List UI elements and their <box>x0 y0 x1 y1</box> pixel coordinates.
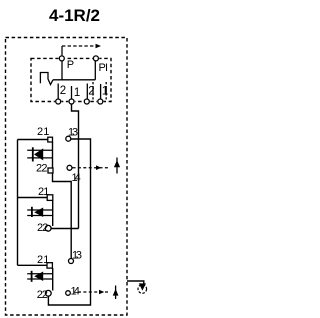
svg-text:2: 2 <box>88 86 94 98</box>
svg-text:4-1R/2: 4-1R/2 <box>49 6 100 25</box>
svg-text:P: P <box>67 59 74 71</box>
svg-text:2: 2 <box>37 126 43 138</box>
svg-text:2: 2 <box>37 254 43 266</box>
svg-text:3: 3 <box>72 127 78 139</box>
svg-text:2: 2 <box>41 163 47 175</box>
svg-text:4: 4 <box>75 172 81 184</box>
svg-text:2: 2 <box>42 289 48 301</box>
svg-text:1: 1 <box>43 254 49 266</box>
svg-text:1: 1 <box>43 126 49 138</box>
svg-text:1: 1 <box>74 87 80 99</box>
svg-text:1: 1 <box>102 86 108 98</box>
svg-text:3: 3 <box>76 250 82 262</box>
svg-text:1: 1 <box>43 186 49 198</box>
svg-text:2: 2 <box>60 85 66 97</box>
svg-text:2: 2 <box>42 222 48 234</box>
svg-text:I: I <box>105 62 108 74</box>
svg-text:4: 4 <box>74 285 80 297</box>
